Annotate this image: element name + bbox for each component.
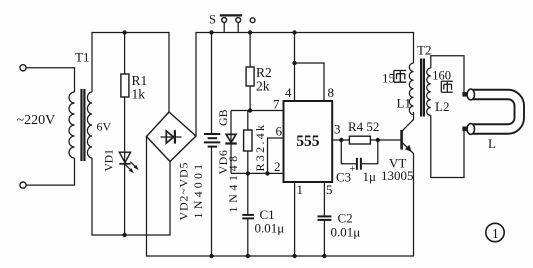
node pin1 on ground rail (292, 254, 296, 258)
wire C3 left lead (341, 140, 356, 164)
lamp pin lower (462, 127, 467, 132)
svg-text:7: 7 (273, 97, 280, 112)
svg-text:6V: 6V (97, 120, 112, 134)
wire C3 right lead (362, 140, 378, 164)
node R1 top (122, 30, 126, 34)
transformer T2 winding L1 (409, 63, 413, 115)
transistor VT emitter arrow (405, 145, 412, 152)
wire battery bottom lead (211, 147, 213, 256)
node C1 on ground rail (246, 254, 250, 258)
figure number circled 1 (486, 223, 504, 241)
svg-text:L2: L2 (435, 99, 449, 114)
resistor R4 (349, 136, 370, 144)
node pin6 branch (265, 171, 269, 175)
lamp pin upper (462, 92, 467, 97)
svg-text:C3: C3 (336, 170, 351, 185)
svg-text:3: 3 (334, 122, 341, 137)
svg-text:1: 1 (492, 226, 499, 241)
wire pin 4 lead (294, 33, 296, 102)
lamp L tube (473, 95, 519, 130)
svg-text:C2: C2 (338, 211, 353, 226)
wire switch contact 1 down (223, 22, 225, 32)
switch bar (220, 14, 242, 16)
lamp end cap upper (467, 89, 474, 100)
wire (26, 158, 74, 185)
node R4 right (376, 138, 380, 142)
svg-text:0.01μ: 0.01μ (331, 225, 361, 240)
svg-text:1μ: 1μ (363, 169, 377, 184)
node pin7 junction (248, 108, 252, 112)
label zha (turns) glyph (441, 81, 453, 92)
svg-text:6: 6 (276, 124, 283, 139)
capacitor C2 (318, 215, 332, 217)
node C2 on ground rail (322, 254, 326, 258)
LED VD1 arrows (126, 165, 132, 171)
transistor VT collector (402, 112, 414, 132)
svg-text:4: 4 (285, 85, 292, 100)
wire battery top lead (211, 33, 213, 134)
wire pin 6 branch (268, 138, 284, 173)
svg-text:~220V: ~220V (17, 113, 56, 128)
wire R2 upper lead (249, 33, 251, 68)
bridge inner diode (161, 136, 182, 138)
switch spare contact circle (250, 18, 255, 23)
svg-text:8: 8 (328, 85, 335, 100)
wire R3 lower lead (247, 151, 249, 173)
svg-text:S: S (209, 13, 216, 27)
node battery on ground rail (209, 254, 213, 258)
svg-text:GB: GB (216, 109, 230, 126)
capacitor C1 (242, 214, 254, 216)
switch contact circle 2 (236, 18, 241, 23)
svg-text:2k: 2k (256, 79, 270, 94)
wire VD1 bottom (124, 164, 126, 235)
svg-text:0.01μ: 0.01μ (255, 221, 285, 236)
transformer T2 core (420, 59, 422, 117)
resistor R3 (244, 130, 252, 151)
wire L2 top to lamp (431, 56, 464, 92)
node R2 top (248, 30, 252, 34)
capacitor C3 (356, 158, 358, 170)
svg-text:VD2~VD5: VD2~VD5 (177, 162, 191, 221)
terminal upper-left (20, 65, 26, 71)
svg-text:1N4148: 1N4148 (226, 152, 240, 212)
transistor VT base bar (400, 130, 403, 150)
lamp end cap lower (467, 124, 474, 135)
wire R3 upper lead (247, 111, 249, 131)
svg-text:2: 2 (274, 159, 281, 174)
bridge rectifier VD2~VD5 diamond (147, 112, 197, 162)
wire pin 1 lead (294, 182, 296, 256)
wire C1 upper lead (247, 173, 249, 215)
wire R4 right lead (370, 139, 400, 141)
wire secondary top to left rail (92, 33, 169, 113)
resistor R1 (121, 74, 129, 97)
wire pin 2 line (231, 172, 284, 174)
svg-text:13005: 13005 (381, 168, 414, 183)
label zha (turns) glyph (394, 71, 406, 83)
node R4 left (339, 138, 343, 142)
svg-text:L1: L1 (397, 96, 411, 111)
resistor R2 (246, 67, 254, 86)
svg-text:R4 52: R4 52 (348, 119, 379, 134)
svg-text:160: 160 (432, 69, 451, 83)
switch contact circle 1 (222, 18, 227, 23)
svg-text:T2: T2 (417, 43, 431, 58)
diode VD6 (226, 134, 236, 142)
node battery top (209, 30, 213, 34)
wire L2 bottom to lamp (431, 115, 464, 177)
wire pin 8 lead (295, 63, 325, 101)
svg-text:VD1: VD1 (104, 149, 116, 172)
svg-text:555: 555 (296, 133, 320, 150)
wire switch contact 2 down (237, 22, 239, 32)
op-amp U1 555 timer body (284, 101, 333, 182)
svg-text:T1: T1 (75, 50, 89, 65)
node bus to pins 4/8 (292, 30, 296, 34)
wire R1 branch upper (124, 33, 126, 75)
svg-text:1k: 1k (132, 87, 146, 102)
wire pin 7 line (231, 110, 284, 112)
wire secondary bottom return (92, 158, 170, 235)
wire bridge left to ground rail (147, 137, 415, 257)
svg-text:R32.4k: R32.4k (253, 123, 267, 172)
wire C2 lower lead (323, 220, 325, 256)
node pin4/pin8 split (292, 61, 296, 65)
transformer T2 winding L2 (427, 68, 431, 115)
battery GB plates (204, 133, 220, 135)
node VD1 bottom (122, 233, 126, 237)
wire pin 3 lead (332, 139, 349, 141)
transformer T1 primary winding (69, 92, 75, 158)
wire C1 lower lead (247, 218, 249, 256)
transistor VT emitter (402, 142, 414, 256)
svg-text:5: 5 (326, 182, 333, 197)
svg-text:15: 15 (382, 71, 395, 86)
svg-text:1: 1 (297, 182, 304, 197)
wire R1 to VD1 (124, 97, 126, 164)
terminal lower-left (20, 182, 26, 188)
wire (26, 68, 74, 92)
LED VD1 (119, 152, 130, 162)
svg-text:1N4001: 1N4001 (191, 161, 205, 219)
node R3 bottom (246, 171, 250, 175)
wire bridge right up to bus (196, 33, 414, 137)
svg-text:L: L (488, 136, 496, 151)
wire pin 5 lead (323, 182, 325, 216)
wire R2 lower lead (249, 86, 251, 111)
transformer T1 secondary winding (87, 92, 92, 158)
wire VD6 lead (230, 111, 232, 174)
transformer T1 core (80, 89, 82, 161)
